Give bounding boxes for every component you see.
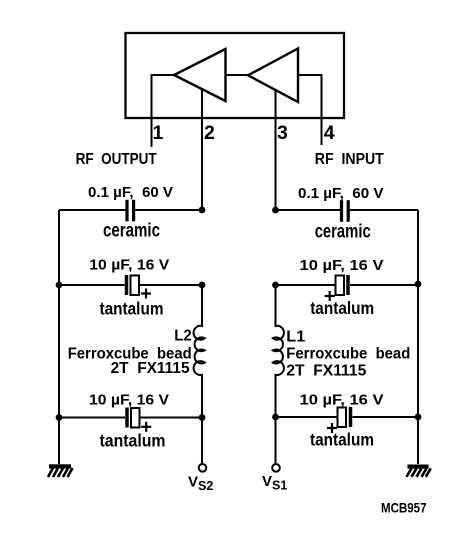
- wire bottom tantalum to pin2 rail: [140, 417, 202, 419]
- svg-text:10 µF, 16 V: 10 µF, 16 V: [300, 392, 384, 409]
- svg-text:0.1 µF, 60 V: 0.1 µF, 60 V: [88, 184, 173, 201]
- wire pin 3 (A2 supply): [275, 90, 277, 210]
- svg-text:L1: L1: [286, 329, 305, 346]
- node junction right rail / tantalum row: [415, 281, 422, 288]
- svg-text:10 µF, 16 V: 10 µF, 16 V: [89, 392, 169, 409]
- svg-text:0.1 µF, 60 V: 0.1 µF, 60 V: [298, 185, 384, 202]
- svg-text:MCB957: MCB957: [381, 500, 427, 516]
- wire tantalum to pin2 rail: [140, 284, 203, 286]
- node junction left rail / tantalum row: [56, 282, 63, 289]
- svg-text:tantalum: tantalum: [100, 299, 164, 319]
- svg-text:10 µF, 16 V: 10 µF, 16 V: [89, 257, 169, 274]
- svg-text:RF OUTPUT: RF OUTPUT: [76, 151, 157, 168]
- ground symbol left: [48, 464, 73, 477]
- wire pin 2 (A1 supply): [201, 90, 203, 211]
- svg-text:2T FX1115: 2T FX1115: [111, 360, 190, 377]
- capacitor C6 10uF tantalum (right lower): [327, 407, 351, 433]
- wire ceramic to pin2 rail: [135, 209, 202, 211]
- svg-text:3: 3: [277, 122, 288, 144]
- inductor L1 coil: [273, 285, 284, 417]
- wire tantalum to right rail: [350, 284, 418, 286]
- wire A1 input to A2 output: [226, 74, 249, 76]
- op-amp A1 (left amplifier triangle): [174, 49, 226, 101]
- right ground rail (vertical wire): [417, 210, 419, 464]
- terminal VS2: [199, 464, 207, 472]
- svg-text:Ferroxcube bead: Ferroxcube bead: [286, 346, 410, 363]
- wire ceramic to right rail: [350, 209, 418, 211]
- capacitor C5 10uF tantalum (right upper): [325, 275, 348, 301]
- wire ceramic row left: [59, 209, 126, 211]
- wire pin2 rail to VS2 terminal: [201, 418, 203, 465]
- IC package outline U1: [126, 33, 345, 118]
- node junction right rail / bottom row: [415, 414, 422, 421]
- node junction pin2 / ceramic row: [199, 207, 206, 214]
- svg-text:tantalum: tantalum: [100, 431, 166, 451]
- capacitor C2 10uF tantalum (left upper): [127, 275, 152, 299]
- svg-text:10 µF, 16 V: 10 µF, 16 V: [300, 257, 384, 274]
- node junction pin2 rail / bottom row: [199, 414, 206, 421]
- capacitor C1 0.1uF ceramic (left): [127, 200, 134, 222]
- svg-text:tantalum: tantalum: [310, 298, 374, 318]
- node junction left rail / bottom row: [56, 414, 63, 421]
- wire tantalum row left: [59, 284, 125, 286]
- wire A2 input to pin 4: [298, 75, 322, 145]
- op-amp A2 (right amplifier triangle): [248, 49, 298, 103]
- svg-text:2T FX1115: 2T FX1115: [286, 363, 366, 380]
- svg-text:1: 1: [153, 122, 164, 144]
- svg-text:ceramic: ceramic: [315, 222, 371, 243]
- svg-text:L2: L2: [174, 328, 192, 345]
- capacitor C3 10uF tantalum (left lower): [127, 408, 151, 432]
- wire bottom tantalum row right: [276, 416, 338, 418]
- svg-text:RF INPUT: RF INPUT: [315, 151, 384, 168]
- svg-text:4: 4: [324, 122, 335, 144]
- left ground rail (vertical wire): [58, 210, 60, 464]
- svg-text:ceramic: ceramic: [103, 221, 160, 242]
- wire A1 output to pin 1: [152, 75, 175, 147]
- node junction pin3 rail / bottom row: [272, 414, 279, 421]
- svg-text:tantalum: tantalum: [310, 430, 374, 450]
- wire pin3 rail to VS1 terminal: [275, 417, 277, 464]
- node junction pin3 rail / tantalum row: [272, 282, 279, 289]
- wire ceramic row right: [276, 209, 340, 211]
- node junction pin2 rail / tantalum row: [199, 282, 206, 289]
- ground symbol right: [407, 465, 431, 477]
- wire tantalum row right: [276, 284, 336, 286]
- wire bottom tantalum to right rail: [353, 416, 419, 418]
- capacitor C4 0.1uF ceramic (right): [342, 200, 349, 222]
- inductor L2 coil: [194, 285, 205, 418]
- wire bottom tantalum row left: [59, 417, 125, 419]
- svg-text:2: 2: [204, 122, 215, 144]
- node junction pin3 / ceramic row: [272, 207, 279, 214]
- terminal VS1: [272, 464, 280, 472]
